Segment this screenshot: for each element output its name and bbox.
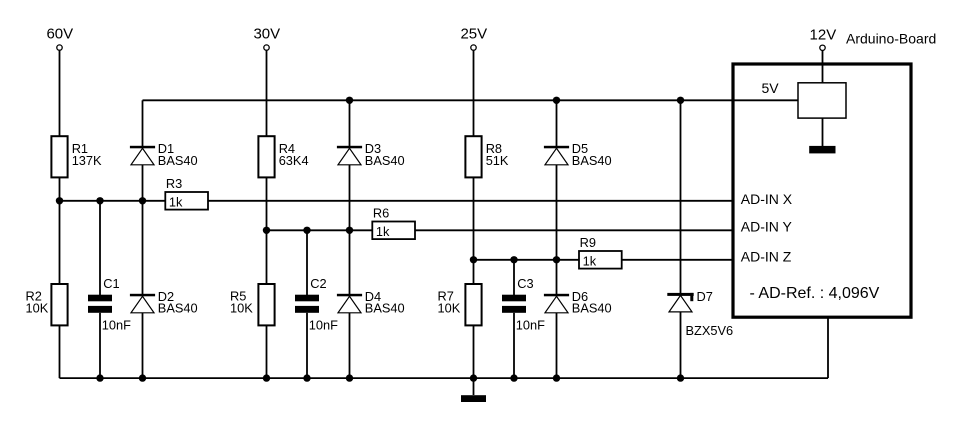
- wire R6 to AD-IN Y input: [415, 229, 733, 231]
- terminal 30V: [264, 45, 269, 50]
- wire D7 anode to ground rail: [680, 312, 682, 378]
- capacitor C1 10nF: [88, 276, 131, 332]
- terminal 60V: [57, 45, 62, 50]
- svg-text:63K4: 63K4: [279, 153, 309, 168]
- ground symbol: [461, 395, 486, 402]
- terminal 25V: [471, 45, 476, 50]
- resistor R4 63K4: [258, 136, 308, 177]
- wire R7 node to ground symbol: [473, 378, 475, 395]
- wire R2 to ground rail: [59, 325, 61, 378]
- junction ground rail / C3: [510, 374, 517, 381]
- wire 5V rail to D5 cathode: [556, 100, 558, 148]
- diode D1 BAS40: [130, 141, 198, 168]
- svg-text:BAS40: BAS40: [572, 301, 612, 316]
- junction node row 2 / diodes D3 D4: [346, 227, 353, 234]
- junction top rail / D3: [346, 97, 353, 104]
- wire 5V rail to D7 cathode: [680, 100, 682, 296]
- diode D3 BAS40: [337, 141, 405, 168]
- diode D4 BAS40: [337, 289, 405, 316]
- svg-text:AD-IN Z: AD-IN Z: [741, 248, 792, 264]
- svg-text:D7: D7: [697, 289, 713, 304]
- wire node row 3 to C3: [513, 260, 515, 296]
- svg-text:1k: 1k: [169, 194, 183, 209]
- svg-text:10K: 10K: [26, 301, 49, 316]
- resistor R2 10K: [26, 284, 68, 325]
- pin label AD-IN Z: [741, 248, 792, 264]
- resistor R1 137K: [51, 136, 102, 177]
- wire node row 2 to C2: [306, 230, 308, 295]
- diode D2 BAS40: [130, 289, 198, 316]
- regulator U1 5V: [798, 83, 846, 118]
- resistor R3 1k: [165, 176, 208, 210]
- resistor R6 1k: [372, 205, 415, 239]
- capacitor C2 10nF: [295, 276, 338, 332]
- svg-text:10K: 10K: [230, 301, 253, 316]
- resistor R8 51K: [465, 136, 509, 177]
- svg-text:BAS40: BAS40: [365, 153, 405, 168]
- capacitor C3 10nF: [502, 276, 545, 332]
- wire D3 anode to node row 2: [349, 165, 351, 231]
- junction ground rail / D7: [677, 374, 684, 381]
- junction ground rail / C2: [303, 374, 310, 381]
- ground symbol regulator: [809, 146, 835, 154]
- wire R9 to AD-IN Z input: [622, 259, 733, 261]
- wire 25V terminal to R8: [473, 51, 475, 136]
- junction node row 1 / diodes D1 D2: [139, 197, 146, 204]
- svg-text:60V: 60V: [46, 26, 73, 43]
- junction node row 3 / C3: [510, 256, 517, 263]
- wire node row 1 (AD-IN X net) left segment: [60, 200, 166, 202]
- diode D5 BAS40: [544, 141, 612, 168]
- wire R3 to AD-IN X input: [208, 200, 733, 202]
- wire ground rail: [60, 377, 829, 379]
- label Arduino-Board: [846, 30, 936, 46]
- svg-text:AD-IN X: AD-IN X: [741, 191, 793, 207]
- resistor R7 10K: [438, 284, 482, 325]
- wire regulator to ground symbol: [822, 118, 824, 146]
- wire Arduino ground return: [827, 317, 829, 378]
- pin label AD-IN Y: [741, 219, 793, 235]
- junction node row 2 / C2: [303, 227, 310, 234]
- pin label AD-IN X: [741, 191, 793, 207]
- svg-text:BAS40: BAS40: [158, 301, 198, 316]
- wire node row 2 to D4 cathode: [349, 230, 351, 296]
- zener diode D7 BZX5V6: [667, 289, 733, 338]
- wire D6 anode to ground rail: [556, 313, 558, 378]
- wire 5V rail to D3 cathode: [349, 100, 351, 148]
- wire 60V terminal to R1: [59, 51, 61, 136]
- wire 30V terminal to R4: [266, 51, 268, 136]
- junction ground rail / D2: [139, 374, 146, 381]
- label 5V net: [762, 80, 780, 96]
- junction node row 1 at column 60V: [56, 197, 63, 204]
- node 30V supply label: [253, 26, 280, 43]
- svg-text:51K: 51K: [486, 153, 509, 168]
- junction ground rail / C1: [96, 374, 103, 381]
- svg-text:30V: 30V: [253, 26, 280, 43]
- node 25V supply label: [460, 26, 487, 43]
- wire D1 anode to node row 1: [142, 165, 144, 201]
- junction node row 3 at column 25V: [470, 256, 477, 263]
- svg-text:R6: R6: [373, 205, 389, 220]
- svg-text:137K: 137K: [72, 153, 102, 168]
- junction ground rail / D6: [553, 374, 560, 381]
- wire R7 to ground rail: [473, 325, 475, 378]
- wire C3 to ground rail: [513, 313, 515, 378]
- svg-text:C3: C3: [517, 276, 533, 291]
- svg-text:1k: 1k: [376, 224, 390, 239]
- svg-text:BZX5V6: BZX5V6: [686, 323, 734, 338]
- wire node row 2 (AD-IN Y net) left segment: [267, 229, 373, 231]
- wire C2 to ground rail: [306, 313, 308, 378]
- svg-text:BAS40: BAS40: [158, 153, 198, 168]
- wire node row 3 (AD-IN Z net) left segment: [474, 259, 580, 261]
- junction top rail / D7: [677, 97, 684, 104]
- svg-text:R3: R3: [166, 176, 182, 191]
- junction node row 3 / diodes D5 D6: [553, 256, 560, 263]
- resistor R9 1k: [579, 235, 622, 269]
- wire R1 to node row 1: [59, 177, 61, 200]
- wire R4 to node row 2: [266, 177, 268, 230]
- wire 5V rail to D1 cathode: [142, 100, 144, 148]
- svg-text:25V: 25V: [460, 26, 487, 43]
- wire 12V terminal to regulator: [822, 51, 824, 83]
- wire node row 1 to D2 cathode: [142, 201, 144, 296]
- wire node row 2 to R5: [266, 230, 268, 284]
- svg-text:BAS40: BAS40: [365, 301, 405, 316]
- wire node row 1 to C1: [99, 201, 101, 296]
- Arduino board outline: [733, 64, 911, 317]
- svg-text:R9: R9: [580, 235, 596, 250]
- svg-text:10K: 10K: [438, 301, 461, 316]
- node 60V supply label: [46, 26, 73, 43]
- junction node row 1 / C1: [96, 197, 103, 204]
- wire node row 3 to D6 cathode: [556, 260, 558, 297]
- wire R5 to ground rail: [266, 325, 268, 378]
- wire D4 anode to ground rail: [349, 313, 351, 378]
- svg-text:C2: C2: [310, 276, 326, 291]
- svg-text:12V: 12V: [810, 27, 837, 44]
- svg-text:AD-IN Y: AD-IN Y: [741, 219, 793, 235]
- junction ground rail / D4: [346, 374, 353, 381]
- wire 5V top rail from D1 to regulator: [143, 99, 799, 101]
- wire node row 1 to R2: [59, 201, 61, 284]
- svg-text:5V: 5V: [762, 80, 780, 96]
- node 12V supply label: [810, 27, 837, 44]
- label AD reference voltage: [750, 285, 880, 302]
- wire R8 to node row 3: [473, 177, 475, 259]
- junction top rail / D5: [553, 97, 560, 104]
- junction ground rail / R7: [470, 374, 477, 381]
- svg-text:10nF: 10nF: [309, 318, 338, 333]
- diode D6 BAS40: [544, 289, 612, 316]
- svg-text:Arduino-Board: Arduino-Board: [846, 30, 936, 46]
- junction ground rail / R5: [263, 374, 270, 381]
- resistor R5 10K: [230, 284, 275, 325]
- svg-text:1k: 1k: [583, 253, 597, 268]
- wire C1 to ground rail: [99, 313, 101, 378]
- wire D5 anode to node row 3: [556, 165, 558, 260]
- wire D2 anode to ground rail: [142, 313, 144, 378]
- svg-text:10nF: 10nF: [516, 318, 545, 333]
- wire node row 3 to R7: [473, 260, 475, 284]
- junction node row 2 at column 30V: [263, 227, 270, 234]
- svg-text:- AD-Ref. : 4,096V: - AD-Ref. : 4,096V: [750, 285, 880, 302]
- terminal 12V: [820, 45, 825, 50]
- svg-text:10nF: 10nF: [102, 318, 131, 333]
- svg-text:C1: C1: [103, 276, 119, 291]
- svg-text:BAS40: BAS40: [572, 153, 612, 168]
